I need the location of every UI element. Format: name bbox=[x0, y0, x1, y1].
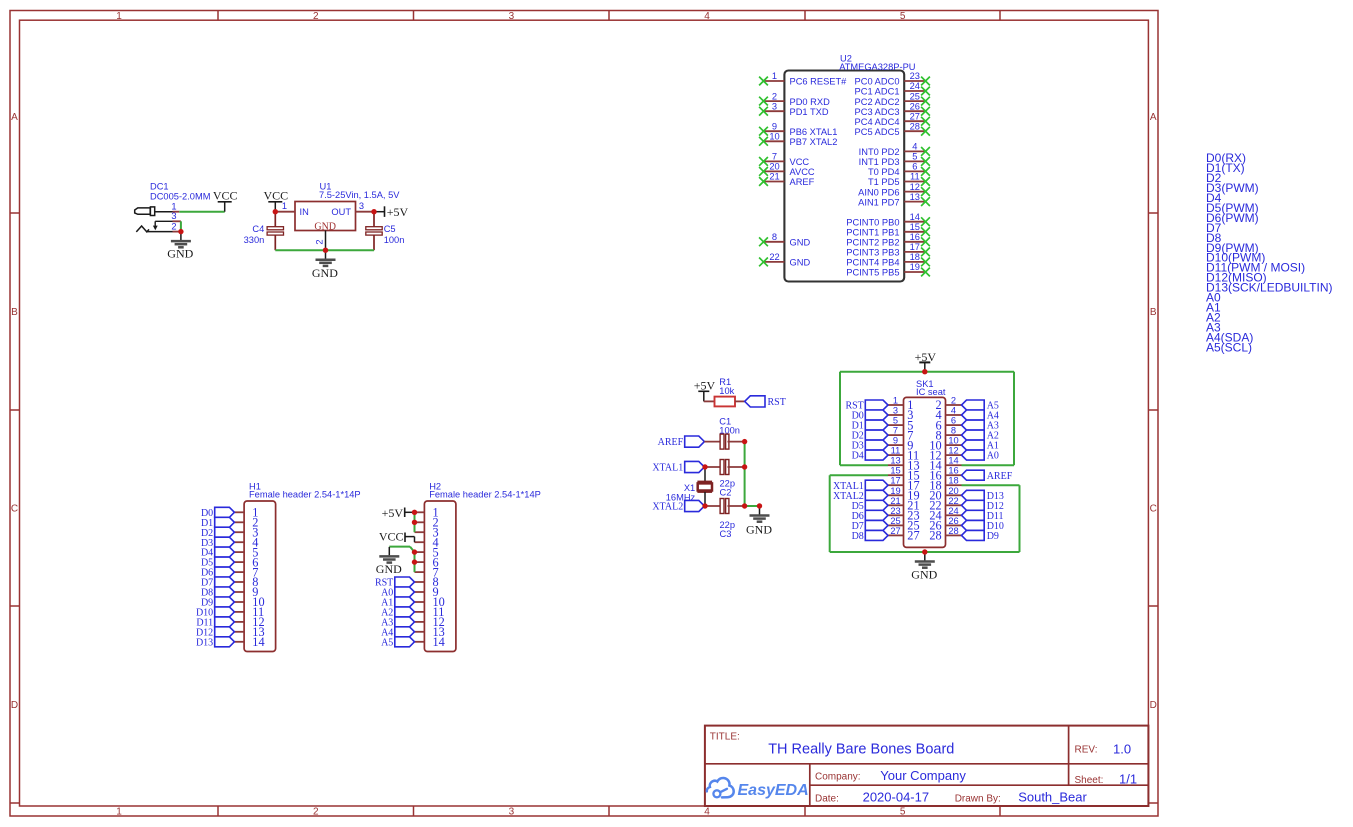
svg-text:16: 16 bbox=[910, 232, 920, 242]
svg-text:C2: C2 bbox=[720, 488, 732, 498]
svg-text:330n: 330n bbox=[244, 235, 265, 245]
svg-text:PD1 TXD: PD1 TXD bbox=[790, 107, 829, 117]
svg-text:8: 8 bbox=[772, 232, 777, 242]
svg-text:2: 2 bbox=[951, 396, 956, 406]
svg-text:D9: D9 bbox=[987, 531, 999, 542]
svg-text:Drawn By:: Drawn By: bbox=[955, 793, 1001, 804]
svg-text:11: 11 bbox=[891, 446, 901, 456]
svg-text:3: 3 bbox=[772, 101, 777, 111]
svg-text:18: 18 bbox=[948, 476, 958, 486]
svg-text:C4: C4 bbox=[252, 224, 264, 234]
svg-text:TITLE:: TITLE: bbox=[710, 732, 740, 743]
svg-text:20: 20 bbox=[948, 486, 958, 496]
svg-text:10: 10 bbox=[948, 436, 958, 446]
svg-text:+5V: +5V bbox=[387, 205, 409, 219]
svg-text:PCINT3 PB3: PCINT3 PB3 bbox=[846, 248, 899, 258]
svg-text:B: B bbox=[11, 307, 18, 318]
svg-text:14: 14 bbox=[948, 456, 958, 466]
svg-text:PC1 ADC1: PC1 ADC1 bbox=[855, 87, 900, 97]
svg-text:PD0 RXD: PD0 RXD bbox=[790, 97, 831, 107]
svg-text:VCC: VCC bbox=[213, 188, 238, 202]
svg-text:GND: GND bbox=[746, 522, 772, 536]
svg-text:INT0 PD2: INT0 PD2 bbox=[859, 147, 900, 157]
svg-text:5: 5 bbox=[893, 416, 898, 426]
svg-text:C5: C5 bbox=[384, 224, 396, 234]
svg-text:20: 20 bbox=[769, 162, 779, 172]
svg-text:13: 13 bbox=[910, 192, 920, 202]
svg-text:GND: GND bbox=[167, 247, 193, 261]
svg-text:AREF: AREF bbox=[790, 177, 815, 187]
svg-text:Female header 2.54-1*14P: Female header 2.54-1*14P bbox=[249, 490, 361, 500]
svg-text:2: 2 bbox=[313, 11, 319, 22]
svg-text:AREF: AREF bbox=[987, 471, 1013, 482]
svg-text:23: 23 bbox=[890, 506, 900, 516]
svg-text:27: 27 bbox=[890, 526, 900, 536]
svg-text:B: B bbox=[1150, 307, 1157, 318]
svg-text:C: C bbox=[11, 504, 18, 515]
svg-text:26: 26 bbox=[910, 101, 920, 111]
svg-text:13: 13 bbox=[890, 456, 900, 466]
svg-text:EasyEDA: EasyEDA bbox=[738, 782, 809, 799]
svg-text:GND: GND bbox=[376, 562, 402, 576]
svg-text:PCINT4 PB4: PCINT4 PB4 bbox=[846, 258, 899, 268]
svg-text:19: 19 bbox=[890, 486, 900, 496]
svg-text:18: 18 bbox=[910, 252, 920, 262]
svg-text:VCC: VCC bbox=[379, 530, 404, 544]
svg-text:3: 3 bbox=[509, 11, 515, 22]
svg-text:AREF: AREF bbox=[658, 437, 684, 448]
svg-text:1/1: 1/1 bbox=[1119, 772, 1137, 787]
svg-text:GND: GND bbox=[790, 258, 811, 268]
svg-text:3: 3 bbox=[509, 807, 515, 818]
svg-text:RST: RST bbox=[768, 397, 786, 408]
svg-text:IN: IN bbox=[300, 207, 309, 217]
svg-text:PC2 ADC2: PC2 ADC2 bbox=[855, 97, 900, 107]
svg-text:19: 19 bbox=[910, 262, 920, 272]
svg-text:2020-04-17: 2020-04-17 bbox=[863, 790, 930, 805]
svg-text:24: 24 bbox=[910, 81, 920, 91]
svg-text:Date:: Date: bbox=[815, 793, 839, 804]
svg-text:ATMEGA328P-PU: ATMEGA328P-PU bbox=[839, 62, 915, 72]
svg-text:PCINT0 PB0: PCINT0 PB0 bbox=[846, 217, 899, 227]
svg-text:6: 6 bbox=[912, 162, 917, 172]
svg-text:A: A bbox=[1150, 112, 1157, 123]
svg-text:7: 7 bbox=[893, 426, 898, 436]
svg-text:GND: GND bbox=[911, 567, 937, 581]
svg-text:DC1: DC1 bbox=[150, 182, 169, 192]
svg-text:1: 1 bbox=[893, 396, 898, 406]
svg-text:5: 5 bbox=[900, 807, 906, 818]
svg-text:PC0 ADC0: PC0 ADC0 bbox=[855, 77, 900, 87]
svg-text:T0 PD4: T0 PD4 bbox=[868, 167, 900, 177]
svg-text:D: D bbox=[11, 700, 18, 711]
svg-text:4: 4 bbox=[704, 807, 710, 818]
svg-text:Company:: Company: bbox=[815, 772, 861, 783]
svg-text:10: 10 bbox=[769, 132, 779, 142]
svg-text:9: 9 bbox=[772, 121, 777, 131]
svg-text:7.5-25Vin, 1.5A, 5V: 7.5-25Vin, 1.5A, 5V bbox=[319, 190, 400, 200]
svg-text:PB6 XTAL1: PB6 XTAL1 bbox=[790, 127, 838, 137]
svg-text:5: 5 bbox=[912, 152, 917, 162]
svg-text:25: 25 bbox=[910, 91, 920, 101]
svg-text:XTAL2: XTAL2 bbox=[652, 502, 683, 513]
svg-text:REV:: REV: bbox=[1075, 745, 1098, 756]
svg-text:Your Company: Your Company bbox=[880, 768, 966, 783]
svg-text:14: 14 bbox=[433, 635, 445, 649]
svg-text:D4: D4 bbox=[852, 451, 864, 462]
svg-text:South_Bear: South_Bear bbox=[1018, 790, 1087, 805]
svg-text:22: 22 bbox=[948, 496, 958, 506]
svg-text:A5: A5 bbox=[381, 637, 393, 648]
svg-text:1: 1 bbox=[116, 11, 122, 22]
svg-text:5: 5 bbox=[900, 11, 906, 22]
svg-text:23: 23 bbox=[910, 71, 920, 81]
svg-text:25: 25 bbox=[890, 516, 900, 526]
svg-text:PB7 XTAL2: PB7 XTAL2 bbox=[790, 137, 838, 147]
svg-text:Sheet:: Sheet: bbox=[1075, 775, 1104, 786]
svg-text:2: 2 bbox=[313, 807, 319, 818]
svg-text:12: 12 bbox=[910, 182, 920, 192]
svg-text:VCC: VCC bbox=[263, 188, 288, 202]
svg-text:10k: 10k bbox=[719, 386, 734, 396]
svg-text:100n: 100n bbox=[384, 235, 405, 245]
svg-text:D: D bbox=[1150, 700, 1157, 711]
svg-text:XTAL1: XTAL1 bbox=[652, 463, 683, 474]
svg-text:1: 1 bbox=[282, 201, 287, 211]
svg-text:7: 7 bbox=[772, 152, 777, 162]
svg-text:2: 2 bbox=[315, 239, 325, 244]
svg-text:TH Really Bare Bones Board: TH Really Bare Bones Board bbox=[768, 742, 954, 758]
svg-text:4: 4 bbox=[951, 406, 956, 416]
svg-text:28: 28 bbox=[948, 526, 958, 536]
svg-text:22: 22 bbox=[769, 252, 779, 262]
svg-text:14: 14 bbox=[252, 635, 264, 649]
svg-text:+5V: +5V bbox=[382, 506, 404, 520]
svg-text:21: 21 bbox=[769, 172, 779, 182]
svg-text:1: 1 bbox=[171, 201, 176, 211]
svg-text:Female header 2.54-1*14P: Female header 2.54-1*14P bbox=[429, 490, 541, 500]
svg-text:3: 3 bbox=[893, 406, 898, 416]
svg-text:6: 6 bbox=[951, 416, 956, 426]
svg-text:3: 3 bbox=[359, 201, 364, 211]
svg-text:VCC: VCC bbox=[790, 157, 810, 167]
svg-text:15: 15 bbox=[910, 222, 920, 232]
svg-text:D13(SCK/LEDBUILTIN): D13(SCK/LEDBUILTIN) bbox=[1206, 281, 1332, 295]
svg-text:3: 3 bbox=[171, 211, 176, 221]
svg-text:14: 14 bbox=[910, 212, 920, 222]
svg-text:+5V: +5V bbox=[694, 378, 716, 392]
svg-text:GND: GND bbox=[790, 238, 811, 248]
svg-text:A0: A0 bbox=[987, 451, 999, 462]
svg-text:D13: D13 bbox=[196, 637, 213, 648]
svg-text:INT1 PD3: INT1 PD3 bbox=[859, 157, 900, 167]
svg-text:A5(SCL): A5(SCL) bbox=[1206, 340, 1252, 354]
svg-text:1: 1 bbox=[116, 807, 122, 818]
svg-text:GND: GND bbox=[312, 266, 338, 280]
svg-text:26: 26 bbox=[948, 516, 958, 526]
svg-text:1: 1 bbox=[772, 71, 777, 81]
svg-text:AIN0 PD6: AIN0 PD6 bbox=[858, 187, 899, 197]
svg-text:27: 27 bbox=[910, 111, 920, 121]
svg-text:16: 16 bbox=[948, 466, 958, 476]
svg-text:2: 2 bbox=[772, 91, 777, 101]
svg-text:12: 12 bbox=[948, 446, 958, 456]
svg-text:PCINT2 PB2: PCINT2 PB2 bbox=[846, 238, 899, 248]
svg-text:11: 11 bbox=[910, 172, 920, 182]
svg-text:PCINT5 PB5: PCINT5 PB5 bbox=[846, 268, 899, 278]
svg-text:PC3 ADC3: PC3 ADC3 bbox=[855, 107, 900, 117]
svg-text:4: 4 bbox=[912, 142, 917, 152]
svg-text:1.0: 1.0 bbox=[1113, 741, 1131, 756]
svg-text:27: 27 bbox=[907, 529, 919, 543]
svg-text:DC005-2.0MM: DC005-2.0MM bbox=[150, 192, 210, 202]
svg-text:21: 21 bbox=[890, 496, 900, 506]
svg-text:AIN1 PD7: AIN1 PD7 bbox=[858, 197, 899, 207]
svg-text:OUT: OUT bbox=[331, 207, 351, 217]
svg-text:T1 PD5: T1 PD5 bbox=[868, 177, 900, 187]
svg-text:PC5 ADC5: PC5 ADC5 bbox=[855, 127, 900, 137]
svg-text:17: 17 bbox=[890, 476, 900, 486]
svg-text:D8: D8 bbox=[852, 531, 864, 542]
svg-text:C3: C3 bbox=[720, 529, 732, 539]
svg-text:AVCC: AVCC bbox=[790, 167, 815, 177]
svg-text:17: 17 bbox=[910, 242, 920, 252]
svg-text:2: 2 bbox=[171, 222, 176, 232]
svg-text:28: 28 bbox=[910, 121, 920, 131]
svg-text:8: 8 bbox=[951, 426, 956, 436]
svg-text:28: 28 bbox=[929, 529, 941, 543]
svg-text:C: C bbox=[1150, 504, 1157, 515]
svg-text:4: 4 bbox=[704, 11, 710, 22]
svg-text:24: 24 bbox=[948, 506, 958, 516]
svg-text:15: 15 bbox=[890, 466, 900, 476]
svg-text:9: 9 bbox=[893, 436, 898, 446]
svg-text:PC4 ADC4: PC4 ADC4 bbox=[855, 117, 900, 127]
svg-text:PC6 RESET#: PC6 RESET# bbox=[790, 77, 848, 87]
svg-text:A: A bbox=[11, 112, 18, 123]
svg-text:IC seat: IC seat bbox=[916, 387, 946, 397]
svg-text:PCINT1 PB1: PCINT1 PB1 bbox=[846, 228, 899, 238]
